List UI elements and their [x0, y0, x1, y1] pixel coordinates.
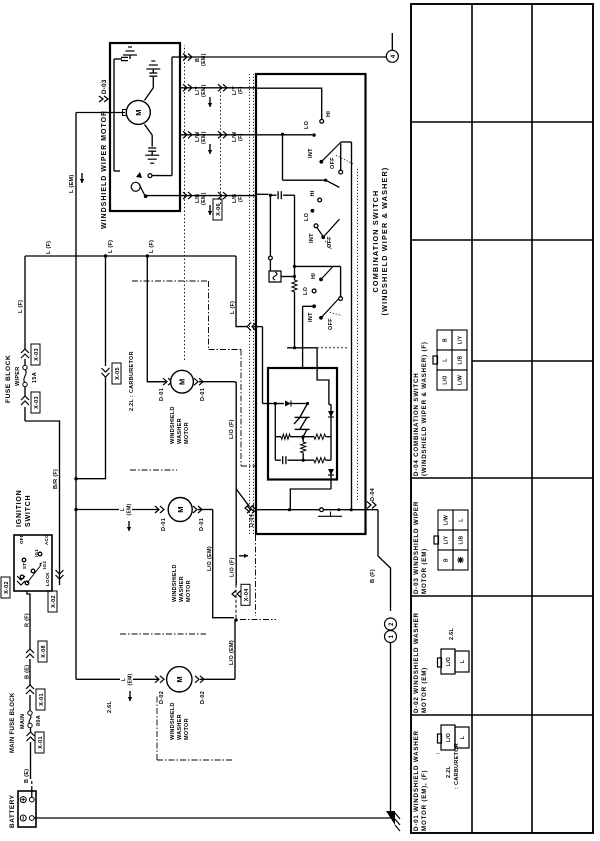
svg-text:L/O: L/O [443, 375, 449, 384]
svg-text:WIPER: WIPER [15, 366, 21, 386]
svg-text:B: B [443, 338, 449, 342]
switch wafer 3 (washer) [295, 266, 343, 330]
combination switch box [256, 74, 366, 534]
svg-text:WASHER: WASHER [177, 714, 183, 740]
washer motor 2 output wire [194, 378, 254, 511]
svg-text:D-02 WINDSHIELD WASHER: D-02 WINDSHIELD WASHER [413, 612, 420, 713]
connector D-03 label [99, 79, 108, 102]
svg-text:ST: ST [22, 563, 27, 569]
svg-text:MAIN: MAIN [20, 714, 26, 729]
svg-text:L/B: L/B [458, 355, 464, 364]
connector X-01 [27, 728, 45, 753]
svg-text:80A: 80A [36, 715, 42, 726]
wire L/Y from wiper motor [180, 84, 256, 107]
svg-text:X-02: X-02 [51, 595, 57, 608]
svg-text:L (F): L (F) [108, 240, 114, 253]
svg-text:L/Y: L/Y [458, 335, 464, 344]
svg-text:D-01 WINDSHIELD WASHER: D-01 WINDSHIELD WASHER [413, 730, 420, 831]
node 1 connector circle [385, 631, 397, 643]
svg-text:LO: LO [304, 120, 310, 129]
svg-text:L/O (EM): L/O (EM) [229, 640, 235, 665]
svg-text:HI: HI [326, 111, 332, 117]
washer motor 3 label [172, 564, 192, 602]
svg-text:B (F): B (F) [370, 569, 376, 583]
svg-text:15A: 15A [32, 372, 38, 383]
connector X-06 label [213, 199, 222, 220]
svg-text:IG2: IG2 [42, 561, 47, 569]
windshield washer motor M4 [167, 667, 192, 692]
node 2 connector circle [385, 618, 397, 630]
svg-text:D-04 COMBINATION SWITCH: D-04 COMBINATION SWITCH [413, 372, 420, 476]
svg-text:D-03 WINDSHIELD WIPER: D-03 WINDSHIELD WIPER [413, 501, 420, 594]
svg-text:FUSE BLOCK: FUSE BLOCK [5, 355, 12, 403]
main fuse MAIN 80A [20, 711, 42, 729]
ignition switch S1 [14, 489, 52, 591]
wire L/W(F) inside combination switch to LO [256, 120, 316, 136]
svg-text:SWITCH: SWITCH [25, 495, 32, 527]
svg-text:WINDSHIELD: WINDSHIELD [170, 702, 176, 740]
svg-text:L/Y: L/Y [444, 535, 450, 544]
harness boundary dashed X-06 line [220, 88, 222, 204]
svg-text:LOCK: LOCK [45, 572, 50, 586]
svg-text:X-01: X-01 [38, 736, 44, 749]
svg-text:LO: LO [303, 286, 309, 295]
svg-text:(EM): (EM) [127, 503, 133, 515]
connector X-04 [230, 489, 251, 618]
connector X-01 (engine side) [25, 659, 46, 711]
battery B1 [9, 791, 36, 828]
svg-text:B: B [444, 558, 450, 562]
fuse WIPER 15A [15, 365, 38, 386]
svg-text:L/O: L/O [446, 657, 452, 666]
svg-text:INT: INT [308, 312, 314, 322]
ground (wiper motor upper) [129, 55, 131, 59]
svg-text:WASHER: WASHER [179, 576, 185, 602]
junction L(F)/X-05 branch [104, 254, 107, 257]
wire L(EM) from X-05 to bus [76, 466, 106, 479]
svg-text:X-03: X-03 [34, 396, 40, 409]
windshield wiper motor D-03 box [110, 43, 180, 211]
svg-text:L: L [121, 678, 127, 681]
svg-text:MOTOR: MOTOR [184, 422, 190, 444]
svg-text:(EM): (EM) [128, 673, 134, 685]
svg-text:D-01: D-01 [199, 518, 205, 531]
harness dotted boundary at combination switch [250, 74, 358, 534]
wiper motor M1 [123, 100, 151, 124]
table cell D-01 windshield washer motor [413, 725, 469, 831]
wiper motor parking switch [131, 172, 180, 198]
washer switch wire (D-04 row) [247, 506, 366, 527]
svg-text:MOTOR (EM), (F): MOTOR (EM), (F) [421, 770, 428, 831]
svg-text:D-03: D-03 [101, 79, 108, 94]
svg-text:L: L [460, 660, 466, 663]
washer motor 3 output wire [193, 506, 238, 622]
wire L(F) to combination switch [230, 256, 263, 331]
svg-text:L/O (EM): L/O (EM) [207, 546, 213, 571]
wire ground to battery negative [34, 811, 390, 818]
combination switch label [371, 167, 389, 316]
svg-text:MOTOR: MOTOR [186, 580, 192, 602]
amplifier internals [268, 348, 334, 464]
wire L(EM) bus [74, 113, 77, 680]
svg-text:4: 4 [391, 54, 397, 58]
svg-text:X-01: X-01 [39, 693, 45, 706]
svg-text:2.6L: 2.6L [449, 627, 455, 640]
svg-text:WINDSHIELD: WINDSHIELD [172, 564, 178, 602]
svg-text:D-04: D-04 [249, 513, 255, 527]
washer motor 2 branch (D-01 2.2L) [147, 378, 172, 401]
switch wafer 1 (wiper hi-lo) [281, 133, 354, 188]
chassis ground G1 [386, 811, 400, 831]
svg-text:X-03: X-03 [34, 348, 40, 361]
svg-text:(WINDSHIELD WIPER & WASHER): (WINDSHIELD WIPER & WASHER) [380, 167, 389, 316]
svg-text:IGNITION: IGNITION [16, 489, 23, 527]
svg-text:B/R (F): B/R (F) [53, 469, 59, 489]
svg-text:X-02: X-02 [4, 581, 10, 594]
svg-text:(EM): (EM) [201, 192, 207, 205]
svg-text:MAIN FUSE BLOCK: MAIN FUSE BLOCK [10, 692, 16, 753]
svg-text:L (EM): L (EM) [69, 174, 75, 193]
washer motor 2 label [170, 406, 190, 444]
svg-text:L/W: L/W [458, 375, 464, 385]
svg-text:L (F): L (F) [230, 301, 236, 314]
wire L/W from wiper motor [180, 131, 256, 154]
svg-text:X-08: X-08 [41, 645, 47, 658]
wire L/Y(F) inside combination switch to HI [256, 88, 332, 123]
svg-text:X-04: X-04 [244, 588, 250, 601]
svg-text:(F): (F) [238, 86, 244, 94]
svg-text:M: M [175, 676, 184, 683]
svg-text:2.6L: 2.6L [107, 700, 113, 713]
svg-text:ACC: ACC [44, 534, 49, 545]
wire L(F) into amplifier unit [263, 327, 269, 404]
svg-text:L/W: L/W [444, 515, 450, 525]
wire rail from wafer1 to D-04 [350, 142, 353, 511]
svg-text:L (F): L (F) [149, 240, 155, 253]
svg-text:D-04: D-04 [370, 487, 376, 501]
wiper motor upper internal wire [114, 57, 128, 171]
windshield washer motor M3 [168, 498, 192, 522]
connector X-05 [102, 363, 122, 466]
svg-text:L: L [460, 736, 466, 739]
svg-text:INT: INT [309, 233, 315, 243]
table cell D-04 combination switch [413, 330, 467, 476]
svg-text:2.2L: 2.2L [446, 765, 452, 778]
svg-text:LO: LO [304, 212, 310, 221]
svg-text:(EM): (EM) [201, 53, 207, 66]
switch wafer 2 (wiper int) [304, 190, 339, 250]
svg-text:MOTOR (EM): MOTOR (EM) [421, 548, 428, 594]
harness boundary dash-dot lines [120, 281, 276, 760]
svg-text:B (E): B (E) [24, 769, 30, 783]
wire L(F) rail [25, 240, 236, 256]
connector X-08 [25, 609, 48, 662]
svg-text:L/O (F): L/O (F) [230, 557, 236, 577]
wire to fuse block [24, 407, 26, 421]
wiper motor noise capacitor left [145, 124, 157, 151]
svg-text:MOTOR: MOTOR [184, 718, 190, 740]
svg-text:OFF: OFF [327, 236, 333, 248]
washer switch ground contact [318, 512, 342, 517]
svg-text:2.2L : CARBURETOR: 2.2L : CARBURETOR [129, 351, 135, 411]
svg-text:D-02: D-02 [159, 691, 165, 704]
washer motor 4 branch (D-02 2.6L) [76, 673, 165, 713]
resistor R1 line [292, 195, 297, 349]
wire L/B(F) to washer capacitor [256, 191, 295, 199]
harness boundary dashed (EM) [184, 45, 186, 360]
svg-text:D-01: D-01 [200, 388, 206, 401]
svg-text:L: L [443, 358, 449, 361]
svg-text:OFF: OFF [330, 157, 336, 169]
svg-text:D-01: D-01 [161, 518, 167, 531]
label L(EM) on bus [69, 173, 84, 193]
connector X-02 (upper) [1, 576, 25, 598]
wire amplifier output to washer switch [290, 469, 334, 510]
connector table [411, 4, 593, 833]
wiper motor internal wire to B terminal [148, 57, 180, 178]
svg-text:D-02: D-02 [200, 691, 206, 704]
svg-text:X-06: X-06 [216, 203, 222, 216]
table cell D-02 windshield washer motor [413, 612, 469, 713]
svg-text:L: L [120, 508, 126, 511]
svg-text:INT: INT [308, 148, 314, 158]
wire L/B from wiper motor [180, 192, 256, 215]
svg-text:M: M [134, 109, 143, 116]
svg-text:↑: ↑ [436, 752, 442, 755]
svg-text:X-05: X-05 [115, 367, 121, 380]
washer motor 3 branch (D-01) [76, 503, 167, 531]
svg-text:L/O: L/O [446, 733, 452, 742]
svg-text:1: 1 [389, 634, 395, 638]
svg-text:MOTOR (EM): MOTOR (EM) [421, 667, 428, 713]
svg-text:COMBINATION SWITCH: COMBINATION SWITCH [371, 190, 380, 293]
table cell D-03 windshield wiper motor [413, 501, 468, 594]
wiper motor noise capacitor right [145, 73, 158, 100]
svg-text:OFF: OFF [328, 318, 334, 330]
svg-text:(EM): (EM) [201, 84, 207, 97]
junction motor1 branch [146, 254, 149, 257]
svg-text:L (F): L (F) [46, 241, 52, 254]
wire B/R(F) ignition switch to fuse block [25, 421, 60, 585]
ground (wiper motor left) [151, 151, 153, 155]
connector X-03 (lower) [21, 387, 40, 413]
svg-text:OFF: OFF [19, 534, 24, 544]
wiper motor feed wire [76, 112, 125, 114]
wire INT contact to amplifier [302, 306, 304, 368]
washer motor 4 label [170, 702, 190, 740]
svg-text:WASHER: WASHER [177, 418, 183, 444]
wire R(F) to ignition switch [27, 591, 30, 609]
wire L(F) to X-05 [105, 256, 107, 366]
svg-text:L: L [459, 518, 465, 521]
rail x=493 top [287, 347, 349, 349]
svg-text:L (F): L (F) [18, 300, 24, 313]
washer motor 4 output wire [195, 620, 236, 704]
svg-text:2: 2 [389, 622, 395, 626]
svg-text:(WINDSHIELD WIPER & WASHER) (: (WINDSHIELD WIPER & WASHER) (F) [421, 341, 428, 476]
wire to chassis ground [390, 643, 392, 812]
svg-text:M: M [178, 378, 187, 385]
svg-text:(EM): (EM) [201, 131, 207, 144]
wire L(F) to washer motor 1 [147, 256, 165, 382]
svg-text:(F): (F) [238, 133, 244, 141]
svg-text:L/B: L/B [459, 535, 465, 544]
svg-text:M: M [176, 506, 185, 513]
wire B(EM) from wiper motor [180, 53, 386, 66]
svg-text:WINDSHIELD: WINDSHIELD [170, 406, 176, 444]
svg-text:IG1: IG1 [34, 549, 39, 557]
intermittent amplifier unit box [268, 368, 337, 480]
node 4 connector circle [386, 33, 398, 62]
wire battery positive B(E) [24, 742, 32, 797]
connector X-02 (lower) [48, 570, 64, 612]
svg-text:(F): (F) [238, 194, 244, 202]
svg-text:L/O (F): L/O (F) [229, 419, 235, 439]
connector X-03 (upper) [21, 256, 40, 365]
svg-text:WINDSHIELD WIPER MOTOR: WINDSHIELD WIPER MOTOR [101, 110, 108, 229]
svg-text:HI: HI [310, 190, 316, 196]
svg-text:HI: HI [311, 273, 317, 279]
relay coil (intermittent relay) [269, 195, 297, 282]
svg-text:D-01: D-01 [159, 388, 165, 401]
wire B(F) from combination switch to ground [366, 487, 391, 611]
ground (wiper motor right) [152, 69, 154, 73]
windshield washer motor M2 [171, 370, 194, 393]
svg-text:BATTERY: BATTERY [9, 794, 16, 828]
